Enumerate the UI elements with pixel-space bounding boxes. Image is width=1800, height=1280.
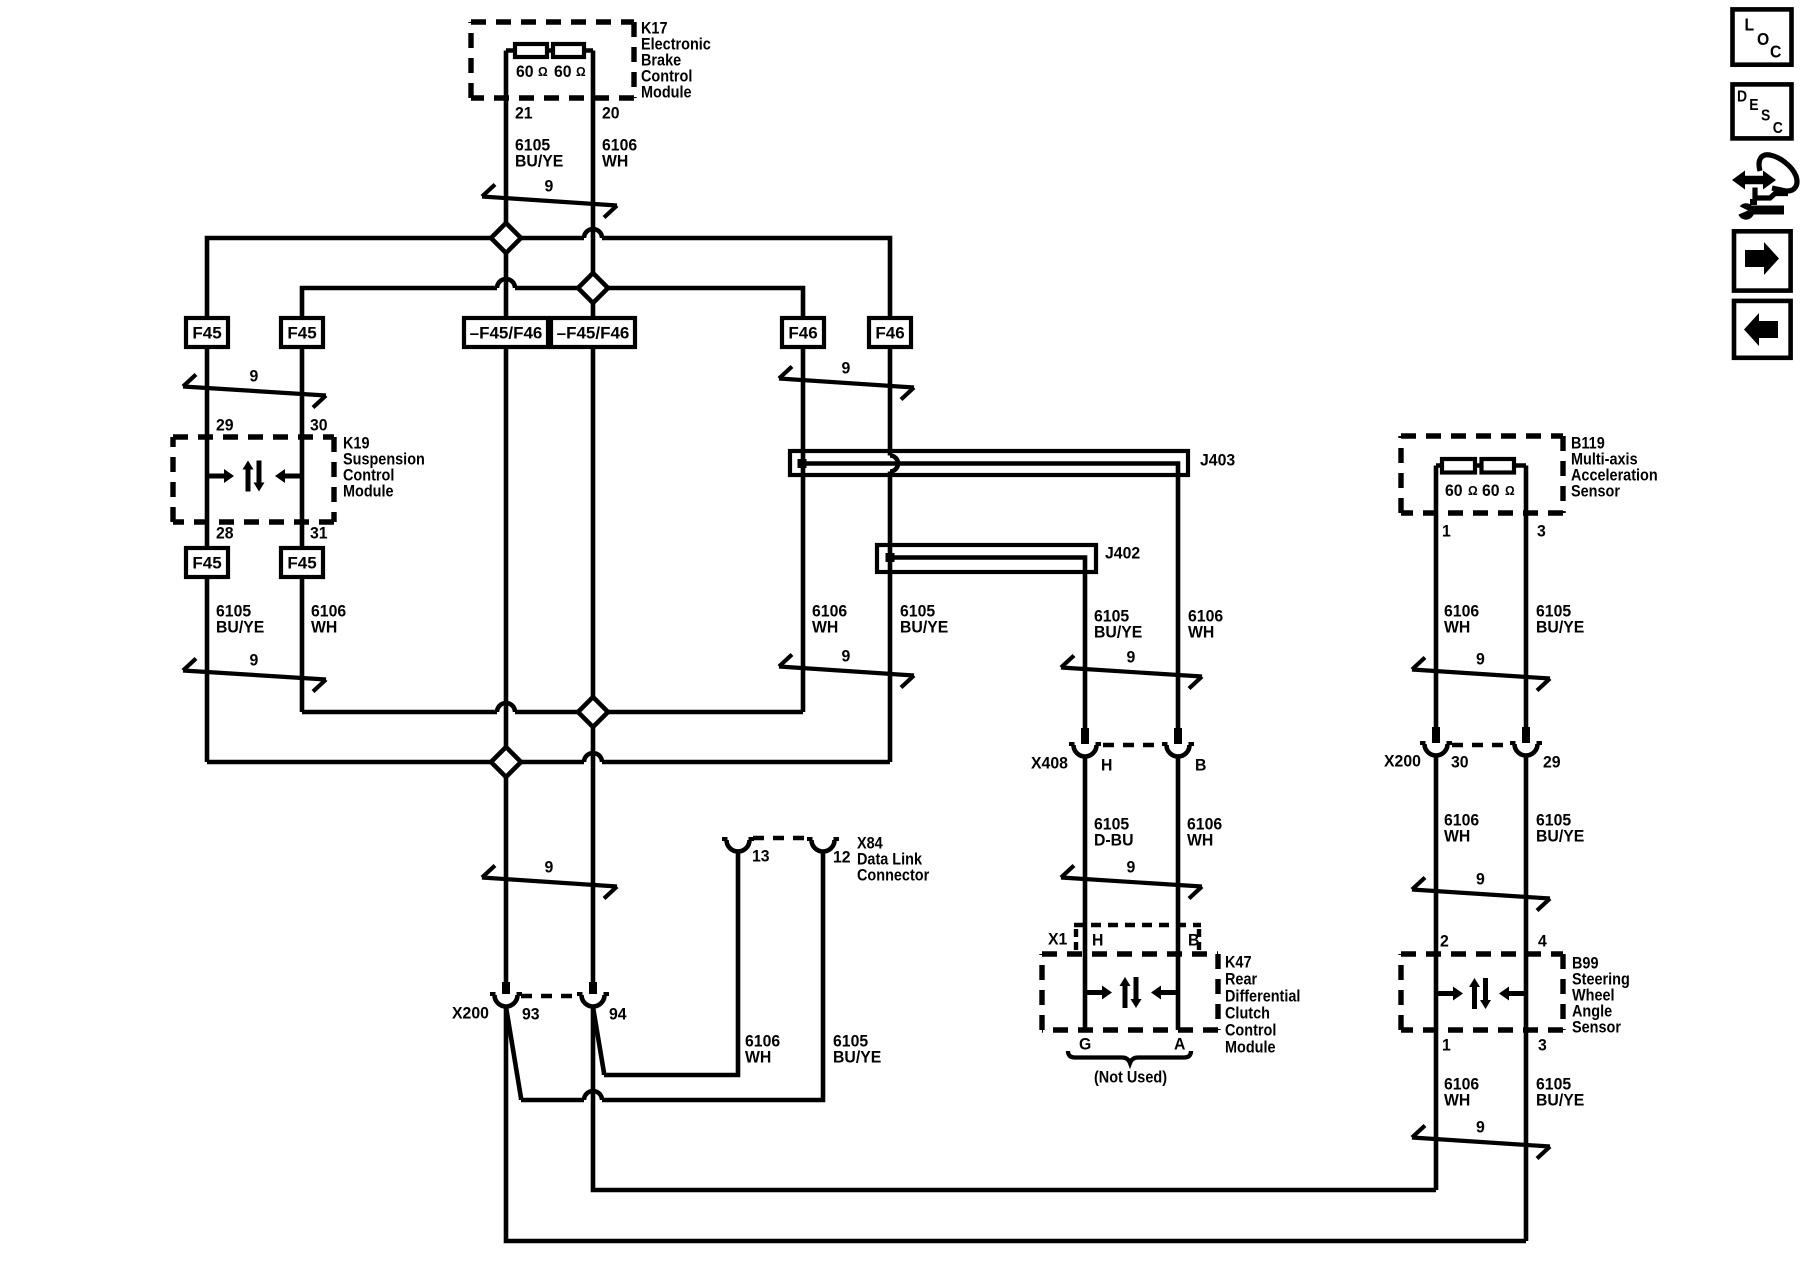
- svg-text:H: H: [1101, 756, 1112, 775]
- svg-text:Ω: Ω: [1468, 484, 1478, 498]
- svg-text:J402: J402: [1105, 544, 1140, 563]
- svg-text:BU/YE: BU/YE: [1536, 618, 1584, 637]
- svg-text:A: A: [1174, 1035, 1186, 1054]
- svg-text:(Not Used): (Not Used): [1094, 1068, 1167, 1086]
- svg-text:60: 60: [1482, 481, 1500, 500]
- svg-text:WH: WH: [1188, 623, 1214, 642]
- svg-text:60: 60: [1445, 481, 1463, 500]
- svg-text:E: E: [1749, 97, 1758, 114]
- svg-text:9: 9: [250, 367, 259, 386]
- svg-text:F46: F46: [788, 323, 817, 342]
- svg-text:93: 93: [522, 1005, 540, 1024]
- svg-text:30: 30: [1451, 753, 1469, 772]
- svg-text:Clutch: Clutch: [1225, 1004, 1270, 1022]
- svg-text:21: 21: [515, 104, 533, 123]
- svg-text:94: 94: [609, 1005, 627, 1024]
- svg-text:60: 60: [516, 62, 534, 81]
- svg-text:Control: Control: [1225, 1021, 1276, 1039]
- svg-text:BU/YE: BU/YE: [515, 152, 563, 171]
- svg-text:9: 9: [250, 651, 259, 670]
- svg-text:C: C: [1770, 42, 1781, 62]
- svg-text:D-BU: D-BU: [1094, 831, 1134, 850]
- svg-text:Ω: Ω: [576, 65, 586, 79]
- svg-text:H: H: [1092, 931, 1103, 950]
- svg-text:Sensor: Sensor: [1571, 482, 1620, 500]
- svg-text:31: 31: [310, 524, 328, 543]
- svg-text:WH: WH: [311, 618, 337, 637]
- svg-text:BU/YE: BU/YE: [216, 618, 264, 637]
- svg-text:BU/YE: BU/YE: [1536, 1091, 1584, 1110]
- svg-text:WH: WH: [1444, 827, 1470, 846]
- svg-text:BU/YE: BU/YE: [900, 618, 948, 637]
- svg-text:12: 12: [833, 848, 851, 867]
- svg-text:WH: WH: [745, 1048, 771, 1067]
- svg-text:29: 29: [1543, 753, 1561, 772]
- svg-text:X408: X408: [1031, 754, 1068, 773]
- svg-text:X1: X1: [1048, 930, 1067, 949]
- svg-text:13: 13: [752, 847, 770, 866]
- svg-text:Sensor: Sensor: [1572, 1018, 1621, 1036]
- svg-text:Rear: Rear: [1225, 970, 1257, 988]
- svg-text:20: 20: [602, 104, 620, 123]
- svg-text:F45: F45: [192, 553, 221, 572]
- svg-text:BU/YE: BU/YE: [1094, 623, 1142, 642]
- svg-text:C: C: [1773, 120, 1783, 137]
- svg-text:9: 9: [1476, 1118, 1485, 1137]
- svg-text:F45: F45: [192, 323, 221, 342]
- svg-text:3: 3: [1537, 522, 1546, 541]
- svg-text:1: 1: [1442, 522, 1451, 541]
- svg-text:J403: J403: [1200, 451, 1235, 470]
- svg-text:X200: X200: [1384, 752, 1421, 771]
- svg-text:30: 30: [310, 416, 328, 435]
- svg-text:Ω: Ω: [538, 65, 548, 79]
- svg-text:60: 60: [554, 62, 572, 81]
- svg-text:4: 4: [1538, 932, 1548, 951]
- svg-text:D: D: [1737, 89, 1747, 106]
- svg-text:L: L: [1745, 14, 1755, 34]
- svg-text:29: 29: [216, 416, 234, 435]
- svg-text:9: 9: [842, 359, 851, 378]
- svg-text:WH: WH: [1444, 618, 1470, 637]
- svg-text:K47: K47: [1225, 953, 1252, 971]
- svg-text:Connector: Connector: [857, 866, 929, 884]
- svg-text:BU/YE: BU/YE: [1536, 827, 1584, 846]
- svg-text:F45: F45: [287, 553, 316, 572]
- svg-text:O: O: [1757, 29, 1769, 49]
- svg-text:B: B: [1188, 931, 1200, 950]
- svg-text:F45: F45: [287, 323, 316, 342]
- svg-text:Module: Module: [343, 482, 394, 500]
- svg-text:S: S: [1761, 108, 1770, 125]
- svg-text:2: 2: [1440, 932, 1449, 951]
- svg-text:WH: WH: [812, 618, 838, 637]
- svg-text:Differential: Differential: [1225, 987, 1300, 1005]
- svg-text:WH: WH: [1444, 1091, 1470, 1110]
- svg-text:Module: Module: [1225, 1038, 1276, 1056]
- svg-text:B: B: [1195, 756, 1207, 775]
- svg-text:–F45/F46: –F45/F46: [557, 323, 630, 342]
- svg-text:9: 9: [1127, 648, 1136, 667]
- svg-text:9: 9: [1476, 650, 1485, 669]
- svg-text:F46: F46: [875, 323, 904, 342]
- svg-text:Module: Module: [641, 83, 692, 101]
- svg-text:28: 28: [216, 524, 234, 543]
- svg-text:G: G: [1079, 1035, 1091, 1054]
- svg-text:1: 1: [1442, 1036, 1451, 1055]
- svg-text:BU/YE: BU/YE: [833, 1048, 881, 1067]
- svg-text:9: 9: [1127, 858, 1136, 877]
- svg-text:WH: WH: [1187, 831, 1213, 850]
- svg-text:Ω: Ω: [1505, 484, 1515, 498]
- svg-text:–F45/F46: –F45/F46: [470, 323, 543, 342]
- svg-text:WH: WH: [602, 152, 628, 171]
- svg-text:9: 9: [842, 647, 851, 666]
- svg-text:9: 9: [1476, 870, 1485, 889]
- svg-text:X200: X200: [452, 1004, 489, 1023]
- svg-text:9: 9: [545, 858, 554, 877]
- svg-text:9: 9: [545, 177, 554, 196]
- svg-text:3: 3: [1538, 1036, 1547, 1055]
